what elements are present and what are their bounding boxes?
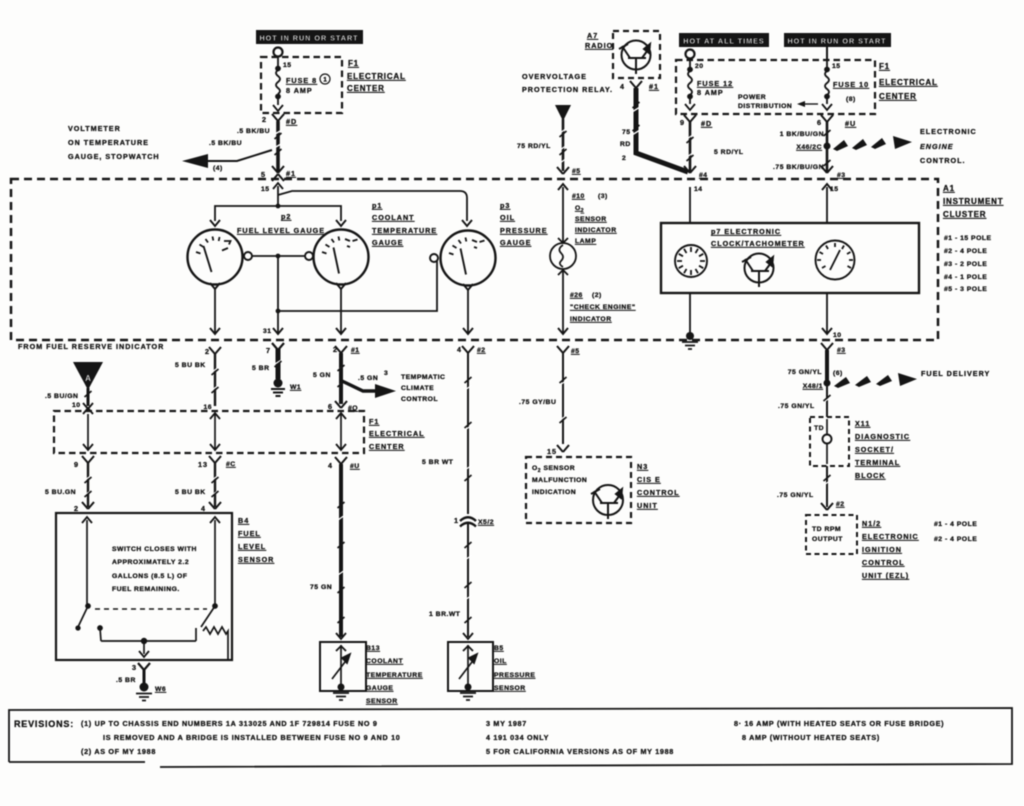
svg-text:8 AMP: 8 AMP xyxy=(286,86,313,95)
thick wire 5 BR xyxy=(252,349,283,379)
svg-text:1 BK/BU/GN: 1 BK/BU/GN xyxy=(780,131,824,138)
svg-text:SWITCH CLOSES WITH: SWITCH CLOSES WITH xyxy=(112,546,197,553)
svg-text:15: 15 xyxy=(547,447,557,456)
svg-text:9: 9 xyxy=(680,118,685,127)
A1 instrument cluster label xyxy=(943,184,1003,219)
pin 4 at sensor xyxy=(201,502,221,513)
svg-text:3: 3 xyxy=(132,663,137,672)
arrow to voltmeter xyxy=(182,140,272,172)
B5 ground xyxy=(460,684,476,701)
svg-text:4: 4 xyxy=(201,504,206,513)
svg-text:.5 BU/GN: .5 BU/GN xyxy=(45,393,78,400)
svg-text:GAUGE: GAUGE xyxy=(372,238,403,247)
fuse 8 value labels xyxy=(283,62,330,95)
thick wire 75 RD 2 from radio xyxy=(620,88,688,172)
pin connector 3 at cluster top xyxy=(821,166,846,193)
node X46/2C xyxy=(796,143,830,152)
junction node between gauges xyxy=(276,254,281,259)
svg-text:.5 BR: .5 BR xyxy=(116,677,136,684)
O2 sensor indicator lamp wire top xyxy=(558,184,568,243)
svg-text:ELECTRONIC: ELECTRONIC xyxy=(862,532,919,541)
svg-text:GAUGE, STOPWATCH: GAUGE, STOPWATCH xyxy=(68,152,160,161)
pin 3 below B4 xyxy=(116,663,150,684)
svg-text:10: 10 xyxy=(72,402,81,409)
svg-text:p7 ELECTRONIC: p7 ELECTRONIC xyxy=(711,227,781,236)
tachometer symbol xyxy=(816,241,855,280)
svg-text:HOT IN RUN OR START: HOT IN RUN OR START xyxy=(259,34,358,43)
svg-text:p3: p3 xyxy=(500,201,510,210)
svg-text:#2 - 4 POLE: #2 - 4 POLE xyxy=(944,248,987,255)
B4 bottom wire to pin 3 xyxy=(101,639,196,657)
wire 5 BU BK lower xyxy=(175,463,219,507)
svg-text:FROM FUEL RESERVE INDICATOR: FROM FUEL RESERVE INDICATOR xyxy=(18,342,164,351)
svg-text:#5: #5 xyxy=(572,168,581,175)
fuel level gauge p2 xyxy=(188,212,326,285)
wire .75 GY/BU xyxy=(519,353,567,444)
svg-text:SENSOR: SENSOR xyxy=(366,698,398,705)
svg-text:#1: #1 xyxy=(351,347,360,354)
pin 6 connector Q at F1 xyxy=(328,401,358,412)
svg-text:GAUGE: GAUGE xyxy=(500,238,531,247)
svg-text:CENTER: CENTER xyxy=(879,92,917,101)
svg-text:APPROXIMATELY 2.2: APPROXIMATELY 2.2 xyxy=(112,559,189,566)
transistor in p7 xyxy=(742,254,774,288)
oil pressure gauge p3 xyxy=(441,201,548,286)
svg-text:ELECTRICAL: ELECTRICAL xyxy=(347,72,406,81)
svg-text:CLOCK/TACHOMETER: CLOCK/TACHOMETER xyxy=(711,239,805,248)
svg-text:(6): (6) xyxy=(833,370,843,377)
svg-text:COOLANT: COOLANT xyxy=(372,213,415,222)
svg-text:#5 - 3 POLE: #5 - 3 POLE xyxy=(944,286,987,293)
wire 5 RD/YL xyxy=(687,122,744,172)
svg-text:HOT IN RUN OR START: HOT IN RUN OR START xyxy=(787,37,886,46)
B13 sensor element xyxy=(332,645,350,684)
svg-text:INDICATION: INDICATION xyxy=(532,489,576,496)
radio pin 4 connector 1 xyxy=(620,81,659,91)
fuel level sensor B4 box xyxy=(56,513,232,660)
svg-text:VOLTMETER: VOLTMETER xyxy=(68,124,121,133)
svg-text:8· 16 AMP (WITH HEATED SEATS O: 8· 16 AMP (WITH HEATED SEATS OR FUSE BRI… xyxy=(734,719,944,728)
overvoltage protection relay note xyxy=(522,72,613,94)
svg-text:p2: p2 xyxy=(281,212,291,221)
voltmeter note xyxy=(68,124,160,161)
svg-text:SOCKET/: SOCKET/ xyxy=(855,445,894,454)
svg-text:REVISIONS:: REVISIONS: xyxy=(14,719,74,729)
svg-text:BLOCK: BLOCK xyxy=(855,471,886,480)
wire from pin 15 to gauges xyxy=(215,183,467,221)
wire between fuel and coolant gauges xyxy=(252,255,305,257)
svg-text:OVERVOLTAGE: OVERVOLTAGE xyxy=(522,72,587,81)
svg-text:20: 20 xyxy=(695,63,704,70)
gauge feed arrows xyxy=(210,220,472,226)
pin connector 5 below cluster (lamp wire) xyxy=(557,346,580,355)
wire from junction to oil gauge terminal xyxy=(278,256,437,311)
junction 5 / connector 1 at cluster top xyxy=(261,166,296,193)
ground in cluster xyxy=(682,332,698,349)
svg-text:O2 SENSOR: O2 SENSOR xyxy=(532,465,575,474)
svg-text:5 RD/YL: 5 RD/YL xyxy=(714,149,744,156)
svg-text:DISTRIBUTION: DISTRIBUTION xyxy=(738,103,792,110)
thick wire 5 GN xyxy=(313,353,345,404)
svg-text:5 BU BK: 5 BU BK xyxy=(175,489,206,496)
wire .75 GN/YL to N1/2 xyxy=(777,466,831,507)
label HOT AT ALL TIMES xyxy=(679,33,769,47)
B4 note text xyxy=(112,546,197,593)
thick wire 75 GN to B13 xyxy=(310,464,346,639)
pin connector 2 at N1/2 xyxy=(821,501,845,510)
label HOT IN RUN OR START (right) xyxy=(784,33,891,47)
electrical center F1 box (fuses 12/10) xyxy=(676,60,875,114)
ground W6 xyxy=(136,683,166,701)
fuse 10 labels xyxy=(832,63,869,103)
svg-text:GALLONS (8.5 L) OF: GALLONS (8.5 L) OF xyxy=(112,573,187,580)
svg-text:6: 6 xyxy=(328,402,333,411)
svg-text:#1 - 4 POLE: #1 - 4 POLE xyxy=(934,521,977,528)
thick wire 75 GN/YL xyxy=(788,350,843,380)
svg-text:OUTPUT: OUTPUT xyxy=(812,536,843,543)
wire 5 BR WT upper xyxy=(422,353,472,514)
svg-text:#C: #C xyxy=(226,461,236,468)
B5 sensor element xyxy=(459,645,477,684)
node 4 at cluster top xyxy=(684,166,708,193)
tach output wire xyxy=(822,293,842,339)
X11 socket xyxy=(814,419,832,464)
svg-text:UNIT (EZL): UNIT (EZL) xyxy=(862,571,909,580)
svg-text:4 191 034 ONLY: 4 191 034 ONLY xyxy=(486,733,549,742)
svg-text:15: 15 xyxy=(283,62,292,69)
svg-text:#U: #U xyxy=(350,463,360,470)
revision note 1 xyxy=(81,719,400,756)
svg-text:.5 BK/BU: .5 BK/BU xyxy=(209,140,242,147)
svg-text:5: 5 xyxy=(261,170,266,179)
svg-text:F1: F1 xyxy=(348,59,359,68)
pin 2 connector 1 below cluster (x341) xyxy=(333,345,360,354)
svg-text:#26: #26 xyxy=(570,292,583,299)
svg-text:#D: #D xyxy=(701,119,712,128)
svg-text:O2: O2 xyxy=(575,205,584,214)
ignition control unit N1/2 box xyxy=(806,515,857,554)
connector X5/2 xyxy=(454,516,494,527)
svg-text:1 BR.WT: 1 BR.WT xyxy=(429,611,461,618)
svg-text:10: 10 xyxy=(833,332,842,339)
svg-text:A1: A1 xyxy=(943,184,955,193)
transistor in N3 xyxy=(591,485,623,519)
svg-text:7: 7 xyxy=(266,346,271,355)
tempmatic note xyxy=(401,374,445,403)
svg-text:4: 4 xyxy=(457,345,462,354)
pin 15 at N3 xyxy=(547,445,569,456)
B5 labels xyxy=(494,645,535,692)
diagnostic socket X11 box xyxy=(810,417,849,466)
svg-text:INSTRUMENT: INSTRUMENT xyxy=(943,197,1003,206)
svg-text:FUSE 8: FUSE 8 xyxy=(286,76,317,85)
svg-text:.75 BK/BU/GN: .75 BK/BU/GN xyxy=(773,164,824,171)
pin 4 connector U below F1 xyxy=(328,457,360,470)
B13 labels xyxy=(366,645,423,705)
svg-text:B5: B5 xyxy=(494,645,504,652)
svg-text:8 AMP (WITHOUT HEATED SEATS): 8 AMP (WITHOUT HEATED SEATS) xyxy=(742,733,880,742)
svg-text:CENTER: CENTER xyxy=(369,442,405,451)
fuse 12 labels xyxy=(695,63,733,97)
svg-text:75 RD/YL: 75 RD/YL xyxy=(517,143,551,150)
svg-text:6: 6 xyxy=(817,118,822,127)
lamp symbol xyxy=(550,238,576,275)
svg-text:FUEL LEVEL GAUGE: FUEL LEVEL GAUGE xyxy=(237,226,325,235)
electronic clock/tachometer p7 box xyxy=(661,223,919,293)
oil gauge left terminal xyxy=(430,254,438,262)
svg-text:N3: N3 xyxy=(637,462,648,471)
svg-text:TD: TD xyxy=(814,425,824,432)
wire .75 BK/BU/GN xyxy=(773,149,827,172)
radio A7 xyxy=(585,31,660,78)
N3 note text xyxy=(532,465,587,496)
svg-text:.75 GY/BU: .75 GY/BU xyxy=(519,399,556,406)
wire 75 RD/YL to pin 5 xyxy=(517,119,567,171)
N1/2 inside label xyxy=(812,526,843,543)
svg-text:ELECTRICAL: ELECTRICAL xyxy=(369,429,425,438)
CIS E control unit N3 box xyxy=(526,457,631,523)
electrical center F1 box (middle) xyxy=(54,411,364,453)
svg-text:W6: W6 xyxy=(155,686,166,693)
branch arrow to tempmatic climate control xyxy=(342,370,396,398)
svg-text:2: 2 xyxy=(74,504,79,513)
svg-text:IGNITION: IGNITION xyxy=(862,545,902,554)
svg-text:B4: B4 xyxy=(238,516,249,525)
clock symbol xyxy=(675,245,707,277)
svg-text:FUSE 10: FUSE 10 xyxy=(833,80,869,89)
svg-text:X48/1: X48/1 xyxy=(803,383,823,390)
svg-text:X11: X11 xyxy=(855,419,870,428)
svg-text:GAUGE: GAUGE xyxy=(366,685,393,692)
svg-text:TERMINAL: TERMINAL xyxy=(855,458,900,467)
svg-text:"CHECK ENGINE": "CHECK ENGINE" xyxy=(570,304,636,311)
switch 2 (sender) xyxy=(196,517,220,641)
svg-text:CONTROL: CONTROL xyxy=(637,488,680,497)
svg-text:#Q: #Q xyxy=(348,405,358,412)
svg-text:.75 GN/YL: .75 GN/YL xyxy=(778,403,815,410)
wire .5 BK/BU from fuse 8 xyxy=(237,121,282,172)
svg-text:(3): (3) xyxy=(598,193,608,200)
pin 2 below cluster (x215) xyxy=(205,347,221,356)
F1 pass-through wire left xyxy=(83,414,93,450)
svg-text:13: 13 xyxy=(198,460,208,469)
svg-text:A: A xyxy=(85,374,91,383)
svg-text:OIL: OIL xyxy=(500,213,515,222)
svg-text:15: 15 xyxy=(261,186,270,193)
svg-text:ELECTRONIC: ELECTRONIC xyxy=(920,127,977,136)
svg-text:TEMPMATIC: TEMPMATIC xyxy=(401,374,445,381)
pin 13 connector C below F1 xyxy=(198,456,236,469)
svg-text:TEMPERATURE: TEMPERATURE xyxy=(372,226,437,235)
resistor in B4 xyxy=(203,627,228,659)
svg-text:#D: #D xyxy=(286,117,297,126)
svg-text:(8): (8) xyxy=(846,96,856,103)
junction node lower xyxy=(276,309,281,314)
wire from black label to fuse 10 xyxy=(826,47,828,60)
svg-text:INDICATOR: INDICATOR xyxy=(575,227,617,234)
wire .75 GN/YL to X11 xyxy=(778,386,831,417)
wire 5 BU.GN to sensor xyxy=(45,463,92,507)
svg-text:LAMP: LAMP xyxy=(575,238,596,245)
pin 7 below cluster (W1 branch) xyxy=(266,343,284,355)
svg-text:ENGINE: ENGINE xyxy=(920,142,954,151)
pin connector at F1 top (left wire) xyxy=(83,403,93,414)
fuel gauge output wire xyxy=(210,283,220,334)
svg-text:5 BU.GN: 5 BU.GN xyxy=(45,489,76,496)
ground W1 xyxy=(271,379,301,397)
svg-text:(2) AS OF MY 1988: (2) AS OF MY 1988 xyxy=(81,747,156,756)
pin connector 5 at cluster top xyxy=(557,167,581,175)
check engine indicator labels xyxy=(570,292,636,323)
svg-text:X5/2: X5/2 xyxy=(478,519,494,526)
coolant gauge output wire xyxy=(336,283,346,334)
svg-text:ELECTRICAL: ELECTRICAL xyxy=(879,78,938,87)
svg-text:4: 4 xyxy=(328,461,333,470)
svg-text:#10: #10 xyxy=(572,193,585,200)
svg-text:PRESSURE: PRESSURE xyxy=(494,672,535,679)
svg-text:FUEL: FUEL xyxy=(238,529,261,538)
F1 middle labels xyxy=(369,417,425,451)
svg-text:(1) UP TO CHASSIS END NUMBERS: (1) UP TO CHASSIS END NUMBERS 1A 313025 … xyxy=(81,719,378,728)
svg-text:SENSOR: SENSOR xyxy=(575,216,607,223)
svg-text:UNIT: UNIT xyxy=(637,501,658,510)
wire hatch marks xyxy=(85,102,831,623)
F1 electrical center label xyxy=(347,59,406,93)
B4 labels xyxy=(238,516,274,564)
svg-text:RADIO: RADIO xyxy=(585,41,613,50)
svg-text:5 BU BK: 5 BU BK xyxy=(175,362,206,369)
svg-text:75 GN: 75 GN xyxy=(310,584,332,591)
pin 9 connector D (fuse 12) xyxy=(680,115,712,128)
svg-text:2: 2 xyxy=(622,155,626,162)
svg-text:W1: W1 xyxy=(290,384,301,391)
svg-text:ON TEMPERATURE: ON TEMPERATURE xyxy=(68,138,149,147)
oil gauge output wire xyxy=(463,284,473,334)
svg-text:CLIMATE: CLIMATE xyxy=(401,385,434,392)
svg-text:5 FOR CALIFORNIA VERSIONS AS: 5 FOR CALIFORNIA VERSIONS AS OF MY 1988 xyxy=(486,747,674,756)
svg-text:INDICATOR: INDICATOR xyxy=(570,316,612,323)
pin 10 connector 3 below cluster (tach wire) xyxy=(821,343,846,354)
svg-text:COOLANT: COOLANT xyxy=(366,658,403,665)
coolant temperature gauge p1 xyxy=(314,201,438,285)
svg-text:SENSOR: SENSOR xyxy=(494,685,526,692)
svg-text:5 BR: 5 BR xyxy=(252,365,270,372)
revisions box xyxy=(9,708,1012,767)
N3 labels xyxy=(637,462,680,510)
coolant temperature gauge sensor B13 box xyxy=(320,642,366,691)
svg-text:#U: #U xyxy=(845,119,856,128)
X11 labels xyxy=(855,419,910,480)
node X48/1 xyxy=(803,380,831,391)
label HOT IN RUN OR START (left) xyxy=(256,30,363,44)
wire junction to cluster pin 31 xyxy=(263,311,283,335)
svg-text:B13: B13 xyxy=(366,645,380,652)
svg-text:OIL: OIL xyxy=(494,658,507,665)
wire 5 BU BK upper xyxy=(175,354,219,411)
svg-text:A7: A7 xyxy=(587,31,598,40)
terminal circle fuse 8 xyxy=(274,48,283,57)
junction node above fuel gauge xyxy=(276,204,281,209)
svg-text:2: 2 xyxy=(262,115,267,124)
transistor in radio xyxy=(619,41,651,75)
F1 pass-through wire middle xyxy=(210,413,220,450)
svg-text:31: 31 xyxy=(263,328,272,335)
svg-text:CONTROL: CONTROL xyxy=(401,396,438,403)
svg-text:#1: #1 xyxy=(286,169,296,178)
pin 4 connector 2 below cluster (oil wire) xyxy=(457,345,486,354)
svg-text:FUEL REMAINING.: FUEL REMAINING. xyxy=(112,586,180,593)
revision notes col 2 xyxy=(486,719,674,756)
svg-text:8 AMP: 8 AMP xyxy=(697,88,724,97)
svg-text:N1/2: N1/2 xyxy=(862,519,881,528)
svg-text:FUSE 12: FUSE 12 xyxy=(697,79,733,88)
svg-text:(4): (4) xyxy=(213,165,223,172)
svg-text:1: 1 xyxy=(323,77,327,84)
svg-text:14: 14 xyxy=(694,186,703,193)
svg-text:SENSOR: SENSOR xyxy=(238,555,274,564)
svg-text:75 GN/YL: 75 GN/YL xyxy=(788,369,822,376)
svg-text:#2 - 4 POLE: #2 - 4 POLE xyxy=(934,536,977,543)
svg-text:PROTECTION RELAY.: PROTECTION RELAY. xyxy=(522,85,613,94)
switch 1 (reserve switch) xyxy=(76,517,102,641)
wire .5 BU/GN from node A xyxy=(45,388,88,409)
svg-text:3 MY 1987: 3 MY 1987 xyxy=(486,719,527,728)
dashed arrow to fuel delivery xyxy=(834,373,917,388)
svg-text:PRESSURE: PRESSURE xyxy=(500,226,548,235)
svg-text:#1 - 15 POLE: #1 - 15 POLE xyxy=(944,235,992,242)
svg-text:CLUSTER: CLUSTER xyxy=(943,210,986,219)
svg-text:9: 9 xyxy=(74,460,79,469)
svg-text:.75 GN/YL: .75 GN/YL xyxy=(777,492,814,499)
dashed arrow to electronic engine control xyxy=(833,136,912,151)
power distribution note xyxy=(738,94,818,110)
svg-text:(2): (2) xyxy=(592,292,602,299)
svg-text:15: 15 xyxy=(832,63,841,70)
clock feed wire xyxy=(689,187,691,223)
pin 9 below F1 xyxy=(74,456,94,469)
pin 2 connector D xyxy=(262,114,297,126)
svg-text:CONTROL: CONTROL xyxy=(862,558,905,567)
O2 sensor indicator lamp labels xyxy=(572,193,617,245)
oil pressure sensor B5 box xyxy=(448,642,493,691)
electrical center F1 box (fuse 8) xyxy=(261,57,342,113)
p7 labels xyxy=(711,227,805,248)
svg-text:#2: #2 xyxy=(836,501,845,508)
svg-text:IS REMOVED AND A BRIDGE IS INS: IS REMOVED AND A BRIDGE IS INSTALLED BET… xyxy=(103,733,400,742)
svg-text:HOT AT ALL TIMES: HOT AT ALL TIMES xyxy=(683,37,764,46)
svg-text:TD RPM: TD RPM xyxy=(812,526,841,533)
terminal circle fuse 12 xyxy=(686,50,695,59)
svg-text:#5: #5 xyxy=(571,348,580,355)
svg-text:5 BR WT: 5 BR WT xyxy=(422,459,454,466)
N1/2 labels xyxy=(862,519,919,580)
svg-text:FUEL DELIVERY: FUEL DELIVERY xyxy=(921,369,990,378)
svg-text:RD: RD xyxy=(620,141,631,148)
mechanical link dashed xyxy=(95,608,207,610)
fuse 12 symbol xyxy=(685,60,695,110)
svg-text:F1: F1 xyxy=(879,62,890,71)
tach feed wire xyxy=(822,184,832,223)
revision notes col 3 xyxy=(734,719,944,742)
clock ground wire xyxy=(689,293,691,333)
svg-text:F1: F1 xyxy=(369,417,379,426)
F1 pass-through wire right xyxy=(336,413,346,450)
svg-text:CIS E: CIS E xyxy=(637,475,661,484)
electronic engine control note xyxy=(920,127,977,165)
svg-text:4: 4 xyxy=(620,82,625,91)
fuel gauge right terminal xyxy=(244,252,252,260)
F1 electrical center label (right) xyxy=(879,62,938,101)
